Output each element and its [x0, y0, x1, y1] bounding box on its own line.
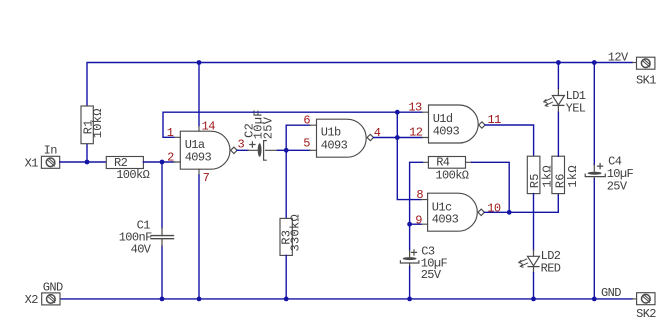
node junction out4/pin12: [395, 135, 400, 140]
wire pin9: [410, 223, 421, 225]
svg-text:YEL: YEL: [566, 101, 586, 115]
wire R4 left to pin9 node: [410, 162, 423, 224]
resistor R5: [527, 156, 540, 193]
wire to pin5: [286, 149, 310, 151]
node junction 12V/pin14: [197, 60, 202, 65]
svg-text:7: 7: [203, 171, 210, 185]
capacitor C4: [585, 164, 605, 180]
wire C1 bottom: [161, 246, 163, 299]
wire U1d out to R5: [485, 125, 533, 156]
resistor R6: [552, 156, 565, 193]
wire U1b out: [374, 137, 423, 139]
svg-text:10kΩ: 10kΩ: [91, 108, 105, 138]
terminal X2: [42, 293, 60, 305]
node junction X1/R1: [85, 160, 90, 165]
svg-text:1kΩ: 1kΩ: [566, 165, 580, 188]
svg-text:4093: 4093: [432, 213, 459, 227]
wire R1 bottom: [86, 144, 88, 162]
terminal X1: [41, 156, 59, 168]
svg-text:4093: 4093: [321, 138, 348, 152]
wire pin13: [397, 111, 422, 113]
svg-text:GND: GND: [601, 286, 621, 300]
node junction GND/LD2: [531, 297, 536, 302]
svg-text:X2: X2: [25, 293, 39, 307]
LED LD1: [544, 89, 565, 113]
svg-text:SK1: SK1: [636, 74, 656, 88]
node junction 12V/C4: [592, 60, 597, 65]
wire C4 bottom: [593, 179, 595, 299]
svg-text:40V: 40V: [131, 243, 152, 257]
op-amp U1d (NAND 4093): [422, 105, 485, 143]
svg-text:5: 5: [303, 137, 310, 151]
svg-text:330kΩ: 330kΩ: [289, 214, 303, 252]
svg-text:10: 10: [487, 202, 501, 216]
svg-text:SK2: SK2: [636, 307, 656, 321]
svg-text:2: 2: [167, 151, 174, 165]
terminal SK1: [637, 57, 655, 69]
wire C3 top: [409, 224, 411, 250]
wire C1 top: [161, 162, 163, 228]
resistor R4: [422, 157, 471, 169]
wire X1 to R2: [60, 161, 107, 163]
capacitor C1: [151, 228, 174, 246]
svg-text:3: 3: [238, 137, 245, 151]
resistor R1: [81, 106, 93, 144]
node junction C2/R3/pin5/pin6: [284, 148, 289, 153]
svg-text:12: 12: [409, 126, 423, 140]
svg-text:14: 14: [202, 120, 216, 134]
svg-text:100kΩ: 100kΩ: [116, 168, 149, 182]
svg-text:13: 13: [408, 101, 422, 115]
node junction pin9/R4/C3: [407, 222, 412, 227]
wire C4 top: [593, 63, 595, 166]
svg-text:12V: 12V: [608, 50, 629, 64]
svg-text:X1: X1: [25, 157, 39, 171]
wire U1a out to C2: [237, 149, 248, 151]
svg-text:GND: GND: [43, 280, 63, 294]
wire SK1 stub: [633, 62, 637, 64]
wire R4 right to out10 node: [472, 162, 510, 212]
LED LD2: [519, 250, 540, 273]
wire GND bottom rail: [60, 298, 633, 300]
svg-text:25V: 25V: [607, 179, 628, 193]
wire C2 to junction: [278, 149, 287, 151]
svg-text:4093: 4093: [185, 150, 212, 164]
wire LD1 top: [557, 63, 559, 89]
wire to pin6: [286, 125, 310, 150]
svg-text:4093: 4093: [433, 124, 460, 138]
wire 12V top rail: [87, 63, 633, 107]
node junction GND/pin7: [197, 297, 202, 302]
wire R2 to U1a pin2: [143, 161, 173, 163]
resistor R2: [106, 157, 143, 169]
node junction GND/C3: [407, 297, 412, 302]
svg-text:9: 9: [415, 213, 422, 227]
wire LD2 bottom: [533, 273, 535, 299]
wire LD1 to R6: [557, 112, 559, 156]
op-amp U1a (NAND 4093): [174, 125, 238, 175]
op-amp U1c (NAND 4093): [421, 193, 484, 231]
svg-text:In: In: [44, 144, 58, 158]
node junction out10/R4: [507, 210, 512, 215]
svg-text:25V: 25V: [262, 116, 276, 139]
node junction feedback/pin13: [395, 110, 400, 115]
wire vertical to pin8: [397, 112, 421, 199]
svg-text:100kΩ: 100kΩ: [435, 168, 468, 182]
svg-text:25V: 25V: [421, 268, 442, 282]
node junction GND/R3: [284, 297, 289, 302]
node junction GND/C1: [160, 297, 165, 302]
op-amp U1b (NAND 4093): [310, 119, 374, 157]
node junction GND/C4: [592, 297, 597, 302]
wire R3 bottom: [285, 255, 287, 299]
wire C3 bottom: [409, 267, 411, 299]
resistor R3: [280, 218, 292, 255]
wire pin7 to GND: [198, 175, 200, 299]
node junction R2/C1: [160, 160, 165, 165]
svg-text:8: 8: [416, 188, 423, 202]
svg-text:6: 6: [303, 114, 310, 128]
svg-text:RED: RED: [541, 261, 561, 275]
terminal SK2: [637, 293, 655, 305]
wire U1c out to R6 bottom: [484, 194, 558, 213]
node junction 12V/LD1: [556, 60, 561, 65]
capacitor C2: [248, 141, 278, 161]
wire SK2 stub: [633, 298, 637, 300]
capacitor C3: [400, 250, 419, 267]
wire pin14 from rail: [198, 63, 200, 126]
wire R5 bottom to LD2: [533, 194, 535, 250]
wire to R3: [285, 150, 287, 218]
wire feedback pin1: [163, 112, 397, 137]
